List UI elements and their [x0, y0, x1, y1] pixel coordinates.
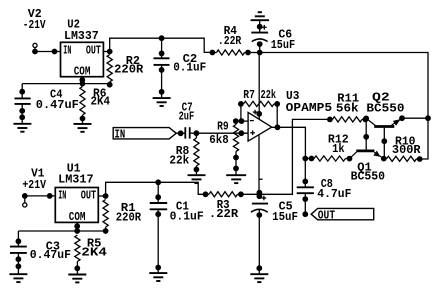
svg-text:15uF: 15uF — [272, 210, 298, 224]
svg-text:6k8: 6k8 — [209, 133, 229, 147]
svg-text:+21V: +21V — [22, 178, 46, 192]
svg-text:300R: 300R — [392, 143, 422, 157]
svg-text:OUT: OUT — [81, 189, 96, 203]
svg-text:BC550: BC550 — [366, 102, 404, 116]
svg-text:BC550: BC550 — [351, 169, 386, 183]
svg-text:22k: 22k — [261, 88, 277, 102]
svg-text:2K4: 2K4 — [91, 95, 111, 109]
svg-text:220R: 220R — [116, 211, 142, 225]
svg-text:2uF: 2uF — [179, 110, 195, 124]
svg-text:56k: 56k — [336, 102, 359, 116]
svg-text:.22R: .22R — [209, 207, 239, 221]
svg-text:0.1uF: 0.1uF — [173, 61, 206, 75]
svg-text:COM: COM — [69, 210, 86, 224]
svg-text:IN: IN — [115, 127, 126, 141]
svg-text:LM337: LM337 — [64, 29, 99, 43]
svg-text:OPAMP5: OPAMP5 — [286, 101, 333, 115]
svg-text:22k: 22k — [169, 154, 189, 168]
svg-text:0.47uF: 0.47uF — [30, 248, 71, 262]
svg-text:OUT: OUT — [86, 44, 101, 58]
svg-text:220R: 220R — [114, 63, 144, 77]
svg-text:OUT: OUT — [318, 208, 335, 222]
svg-text:0.47uF: 0.47uF — [36, 98, 79, 112]
svg-text:.22R: .22R — [218, 34, 242, 48]
svg-text:-21V: -21V — [23, 18, 47, 32]
svg-text:15uF: 15uF — [271, 38, 295, 52]
svg-text:R9: R9 — [217, 120, 229, 134]
svg-text:0.1uF: 0.1uF — [170, 209, 204, 223]
svg-text:R7: R7 — [243, 88, 255, 102]
svg-text:COM: COM — [74, 65, 91, 79]
svg-text:1k: 1k — [332, 142, 345, 156]
svg-text:LM317: LM317 — [58, 172, 94, 186]
svg-text:4.7uF: 4.7uF — [317, 187, 351, 201]
svg-text:2K4: 2K4 — [81, 246, 107, 260]
svg-text:IN: IN — [63, 44, 71, 58]
svg-text:IN: IN — [58, 189, 66, 203]
